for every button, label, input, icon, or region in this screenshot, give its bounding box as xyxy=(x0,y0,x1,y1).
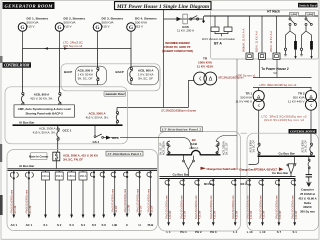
GS arrow xyxy=(106,136,111,140)
wire yard riser xyxy=(236,59,238,169)
feeder C xyxy=(123,171,130,227)
Main In Comer label xyxy=(29,153,49,160)
wire feeder down long xyxy=(163,19,165,108)
svg-text:415 2W: 415 2W xyxy=(263,210,266,219)
transformer TR2 label xyxy=(288,92,305,104)
svg-text:25 KVAR at: 25 KVAR at xyxy=(300,192,315,196)
GOS label xyxy=(177,25,194,33)
svg-text:LT Distribution Panel 2: LT Distribution Panel 2 xyxy=(161,128,201,132)
svg-text:3H, SC, FN, EF: 3H, SC, FN, EF xyxy=(63,158,83,162)
svg-text:11 KV, 200 A: 11 KV, 200 A xyxy=(177,29,194,33)
LA bay 2 arrester xyxy=(300,48,303,56)
wire TR2 secondary xyxy=(310,110,312,143)
svg-text:2000 A: 2000 A xyxy=(189,146,198,150)
capacitor C1 xyxy=(306,175,312,182)
yard bay 3 wire xyxy=(276,16,278,53)
svg-text:ACB, 2000 A: ACB, 2000 A xyxy=(163,141,166,155)
svg-text:11 KV 440 V: 11 KV 440 V xyxy=(235,100,252,104)
transformer TR2 xyxy=(305,88,316,111)
svg-text:3Rx5C: 3Rx5C xyxy=(303,205,312,209)
feeder S2 xyxy=(55,171,63,227)
LT panel 1 enclosure xyxy=(7,150,158,231)
svg-text:415 2W: 415 2W xyxy=(279,210,282,219)
feeder S7 xyxy=(275,179,282,234)
svg-text:3H, SC, OF: 3H, SC, OF xyxy=(160,142,163,155)
wire incoming feeder line xyxy=(164,18,204,20)
VCB CT box a xyxy=(211,27,219,32)
svg-text:Cu Bus Bar: Cu Bus Bar xyxy=(173,173,190,177)
svg-text:(Rx3.5Cx300)Sq mm x2: (Rx3.5Cx300)Sq mm x2 xyxy=(264,118,304,122)
svg-text:415 V, 50 KA, 3H,: 415 V, 50 KA, 3H, xyxy=(33,131,56,135)
changeover switch panel2 xyxy=(183,156,195,177)
control room right enclosure xyxy=(247,133,319,231)
control room bus xyxy=(258,155,316,157)
svg-text:LA#1: LA#1 xyxy=(291,12,298,16)
svg-text:500kVA, 11 KV, A-A: 500kVA, 11 KV, A-A xyxy=(242,28,246,52)
feeder L10b xyxy=(259,179,266,234)
feeder AC1 xyxy=(10,171,18,227)
wire G4 drop xyxy=(130,31,132,48)
ACB 2000 label xyxy=(86,112,109,120)
svg-text:AC unit: AC unit xyxy=(14,205,17,213)
svg-text:HT Rack: HT Rack xyxy=(267,10,280,14)
transformer TR1 xyxy=(253,88,264,111)
LA bay 1 arrester xyxy=(284,48,287,56)
main incomer breaker box xyxy=(53,152,60,161)
svg-text:BACP: BACP xyxy=(116,70,124,74)
svg-text:50 2W: 50 2W xyxy=(140,205,143,213)
svg-text:415 2W: 415 2W xyxy=(169,210,172,219)
feeder AC2 xyxy=(25,171,33,227)
switch yard enclosure xyxy=(211,10,319,59)
ACB label mid xyxy=(30,92,53,100)
PH2 bus upper xyxy=(253,77,312,79)
breaker panel2 right xyxy=(216,141,219,155)
GENERATOR ROOM label xyxy=(3,2,55,9)
panel2 header bus xyxy=(167,150,221,154)
LT bus 2 xyxy=(8,169,158,171)
svg-text:(RABBIT CONDUCTOR): (RABBIT CONDUCTOR) xyxy=(162,49,193,53)
svg-text:3H, SC, OF: 3H, SC, OF xyxy=(253,140,256,153)
ACB 2000 OCC label xyxy=(33,127,56,135)
svg-text:S 6: S 6 xyxy=(102,223,107,227)
svg-text:300 Sq mm x4: 300 Sq mm x4 xyxy=(63,44,83,48)
LT bus 1 xyxy=(13,124,123,126)
generator G4 xyxy=(127,23,136,33)
control room enclosure xyxy=(61,64,160,91)
To Power House label xyxy=(261,67,289,75)
svg-text:415 V: 415 V xyxy=(27,25,36,29)
wire PH2 bus feed b xyxy=(276,60,278,78)
changeover red note xyxy=(201,167,240,171)
breaker Q3 xyxy=(96,49,99,85)
svg-text:3H, SC, OF: 3H, SC, OF xyxy=(138,76,153,80)
svg-text:AMF, Auto Synchronising & Auto: AMF, Auto Synchronising & Auto Load xyxy=(18,107,71,111)
feeder PH3 xyxy=(210,179,217,234)
svg-text:415 2W: 415 2W xyxy=(295,210,298,219)
svg-text:V2: V2 xyxy=(273,71,277,75)
yard bay 2 wire xyxy=(261,16,263,53)
BC ACB label xyxy=(189,138,198,150)
automatic panel enclosure xyxy=(5,87,128,144)
wire title drop to feeder xyxy=(163,10,165,19)
svg-text:415 V, 50 KA, 3H,: 415 V, 50 KA, 3H, xyxy=(86,116,109,120)
title box: MIT Power House 1 Single Line Diagram xyxy=(115,2,212,10)
svg-text:1.2 2W: 1.2 2W xyxy=(127,204,130,212)
capacitor branch wire xyxy=(308,156,310,159)
wire TR secondary down xyxy=(188,81,194,108)
LA bay 1 down arrow xyxy=(294,56,296,59)
wire LV run to panel xyxy=(117,107,188,109)
svg-text:11 KV 440 V: 11 KV 440 V xyxy=(288,100,305,104)
changeover switch right xyxy=(287,156,297,176)
svg-text:630 A, 11 KV, A-A: 630 A, 11 KV, A-A xyxy=(255,31,259,52)
feeder S6 xyxy=(100,171,106,227)
ground capacitor xyxy=(306,182,312,186)
wire GO2 run to panel 2 xyxy=(111,138,192,149)
feeder S1r xyxy=(291,179,298,234)
breaker TR1 secondary xyxy=(258,143,261,156)
svg-text:3H, SC, OF: 3H, SC, OF xyxy=(78,76,93,80)
generator G1 label xyxy=(27,17,49,29)
svg-text:AC 1: AC 1 xyxy=(26,223,33,227)
svg-text:PH 1: PH 1 xyxy=(180,230,187,234)
yard bay 1 wire xyxy=(249,16,251,53)
feeder L10a xyxy=(246,179,253,234)
trunk arrowheads xyxy=(44,47,48,50)
LA#2 label box xyxy=(306,12,315,16)
LA bay 2 fork xyxy=(302,31,312,48)
feeder S1 xyxy=(42,171,50,227)
wire G2 drop xyxy=(59,31,61,48)
main incomer red label xyxy=(63,154,99,162)
LA bay 1 fuse lead xyxy=(295,50,297,56)
svg-text:GS 4: GS 4 xyxy=(93,140,100,144)
feeder LIB xyxy=(111,171,118,227)
feeder arrow xyxy=(177,17,182,21)
svg-text:S 1: S 1 xyxy=(43,223,48,227)
svg-text:3H, SC, OF: 3H, SC, OF xyxy=(305,140,308,153)
svg-text:CONTROL ROOM: CONTROL ROOM xyxy=(290,130,316,134)
yard bay 1 meter xyxy=(246,53,253,59)
svg-text:H: H xyxy=(138,223,140,227)
svg-text:Sharing Panel with BACP-2: Sharing Panel with BACP-2 xyxy=(25,111,63,115)
wire VCB bracket xyxy=(215,32,228,37)
LT Distribution Panel 2 label xyxy=(161,127,203,132)
node feeder junction xyxy=(202,16,204,23)
cable label LTC PH2 xyxy=(262,114,307,122)
svg-text:LIB: LIB xyxy=(112,223,117,227)
generator G3 label xyxy=(102,17,124,29)
wire incomer to bus xyxy=(55,161,57,169)
transformer TR1 label xyxy=(235,92,252,104)
svg-text:415 V, 43.96 A: 415 V, 43.96 A xyxy=(298,196,316,200)
wire G3 drop xyxy=(97,31,99,48)
ACB box 1 xyxy=(76,66,107,85)
VCB drop a xyxy=(214,16,216,27)
breaker Q5 incomer xyxy=(116,108,118,125)
Automatic Panel label xyxy=(104,92,126,97)
svg-text:L 4: L 4 xyxy=(233,230,238,234)
svg-text:☇: ☇ xyxy=(198,77,201,83)
feeder PLB xyxy=(147,171,154,227)
svg-text:Cu Bus Bar: Cu Bus Bar xyxy=(272,171,289,175)
svg-text:50 2W: 50 2W xyxy=(115,205,118,213)
wire G1 drop xyxy=(22,31,24,48)
cable label LTC trunk xyxy=(63,41,84,49)
LT Distribution Panel 1 label xyxy=(106,151,143,156)
svg-text:150 A: 150 A xyxy=(80,174,87,178)
wire PH2 bus feed a xyxy=(259,60,261,78)
feeder S5 xyxy=(90,171,96,227)
PH2 bus lower xyxy=(253,87,312,89)
svg-text:☇: ☇ xyxy=(310,103,313,108)
LT panel 2 enclosure xyxy=(159,132,241,232)
svg-text:11KV Vacuum circuit breaker: 11KV Vacuum circuit breaker xyxy=(202,37,235,41)
svg-text:3H, SC, OF: 3H, SC, OF xyxy=(226,142,229,155)
svg-text:150 A: 150 A xyxy=(42,174,49,178)
LA bay 1 fuse xyxy=(294,41,297,50)
svg-text:415 V: 415 V xyxy=(135,25,144,29)
svg-text:L 1: L 1 xyxy=(167,230,172,234)
svg-text:GENERATOR ROOM: GENERATOR ROOM xyxy=(5,3,54,8)
yard bay 2 meter xyxy=(259,53,266,59)
transformer TR label xyxy=(197,56,214,68)
GOS switch xyxy=(190,16,199,21)
LT bus panel2 xyxy=(160,177,296,179)
svg-text:Δ: Δ xyxy=(209,77,213,83)
CONTROL ROOM label left xyxy=(3,62,32,67)
LA bay 1 fork xyxy=(286,31,296,48)
svg-text:CONTROL ROOM: CONTROL ROOM xyxy=(4,64,30,68)
svg-text:x300 Sq mm x1: x300 Sq mm x1 xyxy=(236,74,256,78)
feeder PH1 xyxy=(180,179,187,234)
svg-text:Switch Yard: Switch Yard xyxy=(299,3,317,7)
svg-text:Cu Bus Bar: Cu Bus Bar xyxy=(279,152,296,156)
svg-text:LA#2: LA#2 xyxy=(307,12,314,16)
wire generator trunk xyxy=(23,48,132,50)
feeder L1 xyxy=(165,179,172,234)
svg-text:Automatic Panel: Automatic Panel xyxy=(104,92,125,96)
VCB drop b xyxy=(227,16,229,27)
AMF panel box xyxy=(14,105,75,117)
svg-text:300 Sq mm: 300 Sq mm xyxy=(300,210,315,214)
svg-text:OCC 1: OCC 1 xyxy=(63,129,72,133)
svg-text:S 4: S 4 xyxy=(81,223,86,227)
LA bay 2 down arrow xyxy=(310,56,312,59)
generator G2 label xyxy=(64,17,86,29)
breaker Q2 xyxy=(58,49,61,110)
svg-text:Change Over Switch with C: Change Over Switch with C xyxy=(207,167,240,171)
incoming feeder red note xyxy=(162,41,193,53)
wire panel2 right feed xyxy=(216,136,237,142)
LA bay 2 fuse xyxy=(310,41,313,50)
ACB box 2 xyxy=(128,66,159,85)
svg-text:☇: ☇ xyxy=(257,103,260,108)
LA#1 label box xyxy=(290,12,299,16)
svg-text:S 5: S 5 xyxy=(92,223,97,227)
CONTROL ROOM label right xyxy=(289,129,317,134)
capacitor text block xyxy=(298,188,316,214)
svg-text:S 3: S 3 xyxy=(69,223,74,227)
cable label LTC under run xyxy=(161,108,196,112)
breaker OCC-1 xyxy=(57,126,60,152)
EPT red note xyxy=(239,167,284,171)
svg-text:HTC: 3Rx1.5Cx95 Sq mm x1: HTC: 3Rx1.5Cx95 Sq mm x1 xyxy=(260,83,297,87)
svg-text:S 2: S 2 xyxy=(57,223,62,227)
svg-text:200 A, 11 KV, A-A: 200 A, 11 KV, A-A xyxy=(269,31,273,52)
svg-text:415 2W: 415 2W xyxy=(235,210,238,219)
svg-text:150 A: 150 A xyxy=(68,174,75,178)
svg-text:Δ: Δ xyxy=(309,94,312,99)
svg-text:150 A: 150 A xyxy=(56,174,63,178)
svg-text:Main In Comer: Main In Comer xyxy=(29,154,49,158)
svg-text:PH 3: PH 3 xyxy=(210,230,217,234)
yard bay 3 meter xyxy=(273,53,280,59)
feeder H xyxy=(136,171,143,227)
svg-text:PH 2: PH 2 xyxy=(195,230,202,234)
wire EPT elbow xyxy=(249,156,259,164)
breaker Q4 xyxy=(130,49,133,85)
svg-text:BACP: BACP xyxy=(64,70,72,74)
svg-text:GO 2: GO 2 xyxy=(112,136,119,140)
svg-text:Δ: Δ xyxy=(257,94,260,99)
svg-text:Delta: Delta xyxy=(304,201,311,205)
svg-text:AC 1: AC 1 xyxy=(11,223,18,227)
transformer TR xyxy=(194,72,217,85)
breaker Q1 xyxy=(21,49,24,110)
generator G3 xyxy=(93,23,102,33)
svg-text:415 2W: 415 2W xyxy=(199,210,202,219)
svg-text:LTC: 2Rx(3.5Cx300)Sq mm x1 by: LTC: 2Rx(3.5Cx300)Sq mm x1 by sea xyxy=(161,108,196,112)
svg-text:MIT Power House 1 Single Line: MIT Power House 1 Single Line Diagram xyxy=(116,4,209,10)
generator G1 xyxy=(18,23,27,33)
svg-text:415 2W: 415 2W xyxy=(214,210,217,219)
generator G4 label xyxy=(135,17,157,29)
Switch Yard label xyxy=(298,3,318,8)
svg-text:Al Bus Bar: Al Bus Bar xyxy=(19,120,35,124)
svg-text:BT A: BT A xyxy=(214,42,222,46)
svg-text:11 KV 415V: 11 KV 415V xyxy=(197,64,214,68)
svg-text:PLB: PLB xyxy=(148,223,154,227)
GS switch drop xyxy=(94,126,106,139)
feeder CT rect xyxy=(183,14,188,24)
svg-text:415 V: 415 V xyxy=(64,25,73,29)
svg-text:Capacitor: Capacitor xyxy=(301,188,315,192)
svg-text:MCCB: MCCB xyxy=(204,182,212,186)
feeder PH2 xyxy=(195,179,202,234)
svg-text:Al Bus Bar: Al Bus Bar xyxy=(19,164,35,168)
breaker TR2 secondary xyxy=(310,143,313,156)
feeder S4 xyxy=(79,171,87,227)
feeder L4 xyxy=(232,179,239,234)
svg-text:415 V, 50 KA, 3H,: 415 V, 50 KA, 3H, xyxy=(30,96,53,100)
LA bay 1 disconnect xyxy=(289,16,296,31)
VCB CT box b xyxy=(224,27,232,32)
svg-text:50 2W: 50 2W xyxy=(151,205,154,213)
HT bus xyxy=(204,15,318,17)
feeder S3 xyxy=(68,171,76,227)
LA bay 2 disconnect xyxy=(305,16,312,31)
svg-text:415 V: 415 V xyxy=(102,25,111,29)
LA bay 2 fuse lead xyxy=(311,50,313,56)
svg-text:415 2W: 415 2W xyxy=(184,210,187,219)
control room right top line xyxy=(241,132,248,134)
capacitor breaker xyxy=(308,159,310,174)
svg-text:AC unit: AC unit xyxy=(29,205,32,213)
svg-text:LT Distribution Panel 1: LT Distribution Panel 1 xyxy=(107,152,142,156)
scan smudge left edge xyxy=(0,56,3,215)
breaker panel2 left xyxy=(167,141,171,155)
wire TR1 secondary xyxy=(258,110,260,143)
generator G2 xyxy=(55,23,64,33)
svg-text:415 2W: 415 2W xyxy=(250,210,253,219)
